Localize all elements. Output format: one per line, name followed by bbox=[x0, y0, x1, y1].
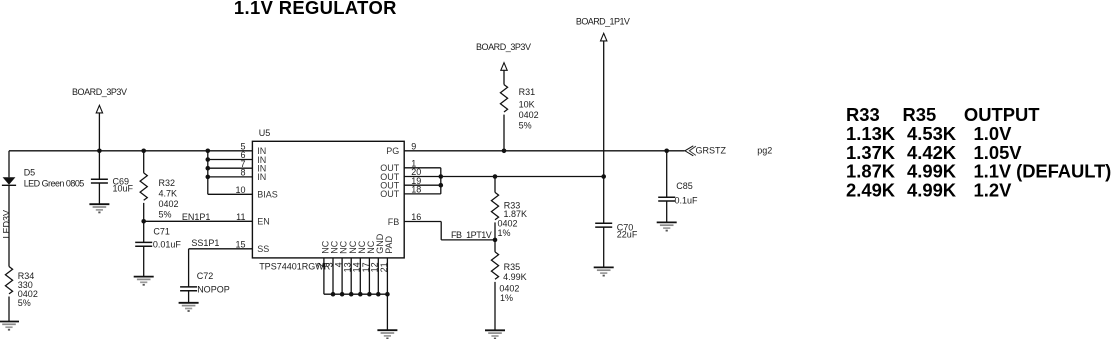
ground (U5 PAD) bbox=[377, 330, 397, 338]
svg-text:0402: 0402 bbox=[499, 283, 519, 293]
wire pin8 stub bbox=[208, 176, 253, 178]
svg-text:4.53K: 4.53K bbox=[907, 123, 957, 144]
svg-text:NOPOP: NOPOP bbox=[197, 284, 230, 294]
wire rail to R32 bbox=[143, 151, 145, 173]
wire R32 to EN junction bbox=[143, 203, 145, 221]
resistor R32 4.7K bbox=[140, 173, 178, 220]
wire bottom pin 13 stub bbox=[350, 258, 352, 294]
junction OUT bus a bbox=[439, 174, 444, 179]
junction EN/C71 bbox=[141, 219, 146, 224]
svg-text:9: 9 bbox=[411, 142, 416, 152]
wire 1P1V to C70 bbox=[603, 177, 605, 223]
junction pin6 tie bbox=[206, 157, 211, 162]
wire OUT tie bus bbox=[440, 168, 442, 194]
svg-text:4.99K: 4.99K bbox=[907, 180, 957, 201]
junction rail/R32 bbox=[141, 149, 146, 154]
wire R34 to ground bbox=[8, 297, 10, 322]
wire FB junction to R35 bbox=[494, 240, 496, 252]
svg-text:1.87K: 1.87K bbox=[846, 161, 896, 182]
svg-text:C72: C72 bbox=[197, 271, 214, 281]
wire SS to C72 bbox=[188, 249, 190, 287]
op-amp U5 TPS74401RGWR body bbox=[252, 128, 404, 271]
svg-text:4.7K: 4.7K bbox=[159, 188, 178, 198]
junction OUT bus b bbox=[439, 183, 444, 188]
junction FB divider bbox=[493, 238, 498, 243]
ground (R35) bbox=[485, 330, 505, 338]
wire PG net to GRSTZ bbox=[404, 150, 684, 152]
wire R35 to ground bbox=[494, 282, 496, 330]
svg-text:BIAS: BIAS bbox=[257, 190, 278, 200]
junction pin7 tie bbox=[206, 166, 211, 171]
svg-text:R33: R33 bbox=[846, 104, 880, 125]
svg-text:D5: D5 bbox=[24, 168, 36, 178]
svg-text:1%: 1% bbox=[498, 228, 511, 238]
U5 left pin names IN/BIAS/EN/SS bbox=[257, 146, 278, 254]
junction OUT/1P1V bbox=[601, 174, 606, 179]
svg-text:R32: R32 bbox=[159, 178, 176, 188]
capacitor C85 0.1uF bbox=[658, 197, 675, 201]
resistor R34 330 bbox=[5, 267, 37, 309]
resistor R31 10K bbox=[500, 85, 538, 131]
ground (C85) bbox=[657, 222, 677, 230]
svg-text:5%: 5% bbox=[18, 298, 31, 308]
wire FB to divider bbox=[441, 239, 495, 241]
junction bottom bus pin 21 bbox=[385, 292, 390, 297]
wire bottom pin 17 stub bbox=[368, 258, 370, 294]
junction pin8 tie bbox=[206, 175, 211, 180]
junction R31/PG bbox=[502, 149, 507, 154]
junction bottom bus pin 17 bbox=[367, 292, 372, 297]
svg-text:SS1P1: SS1P1 bbox=[191, 238, 219, 248]
svg-text:BOARD_3P3V: BOARD_3P3V bbox=[72, 87, 127, 97]
svg-text:10K: 10K bbox=[519, 99, 535, 109]
svg-text:0402: 0402 bbox=[519, 110, 539, 120]
junction rail/IN tie bbox=[206, 149, 211, 154]
wire rail to C69 bbox=[98, 151, 100, 179]
wire C72 to ground bbox=[188, 291, 190, 303]
wire IN/BIAS tie bus bbox=[207, 151, 209, 195]
wire pin10 BIAS stub bbox=[208, 193, 253, 195]
wire R33 to FB junction bbox=[494, 222, 496, 240]
svg-text:OUT: OUT bbox=[380, 189, 400, 199]
resistor R33 1.87K bbox=[491, 192, 527, 238]
U5 left pin numbers 5 6 7 8 10 11 15 bbox=[235, 142, 245, 250]
wire to C71 bbox=[143, 221, 145, 242]
svg-text:U5: U5 bbox=[259, 128, 271, 138]
power symbol BOARD_3P3V (R31) bbox=[476, 42, 531, 70]
wire R31 to PG bbox=[503, 115, 505, 151]
wire bottom pin 3 stub bbox=[332, 258, 334, 294]
svg-text:1.13K: 1.13K bbox=[846, 123, 896, 144]
svg-text:GRSTZ: GRSTZ bbox=[696, 146, 727, 156]
svg-text:OUTPUT: OUTPUT bbox=[964, 104, 1040, 125]
svg-text:1.87K: 1.87K bbox=[504, 209, 528, 219]
svg-text:EN1P1: EN1P1 bbox=[182, 212, 211, 222]
capacitor C70 22uF bbox=[595, 223, 612, 227]
svg-text:EN: EN bbox=[257, 217, 270, 227]
wire power stem bbox=[98, 113, 100, 151]
resistor R35 4.99K bbox=[491, 252, 526, 303]
junction bottom bus pin 3 bbox=[331, 292, 336, 297]
svg-text:R35: R35 bbox=[903, 104, 937, 125]
svg-text:SS: SS bbox=[257, 244, 269, 254]
svg-text:pg2: pg2 bbox=[757, 146, 772, 156]
junction bottom bus pin 13 bbox=[349, 292, 354, 297]
wire bottom pin 21 stub bbox=[386, 258, 388, 294]
power symbol BOARD_3P3V (left) bbox=[72, 87, 127, 113]
wire D5 cathode to R34 bbox=[8, 185, 10, 266]
svg-text:16: 16 bbox=[411, 212, 421, 222]
wire OUT to R33 bbox=[494, 177, 496, 193]
svg-text:11: 11 bbox=[236, 212, 245, 222]
capacitor C71 0.01uF bbox=[135, 242, 152, 246]
svg-text:1.1V REGULATOR: 1.1V REGULATOR bbox=[234, 0, 397, 18]
ground (C69) bbox=[89, 204, 109, 212]
U5 right pin numbers 9 1 20 19 18 16 bbox=[411, 142, 421, 223]
wire pin6 stub bbox=[208, 159, 253, 161]
junction bottom bus pin 4 bbox=[340, 292, 345, 297]
wire FB stub bbox=[404, 221, 441, 223]
wire pin7 stub bbox=[208, 167, 253, 169]
wire bottom pins bus bbox=[324, 293, 388, 295]
svg-text:1.2V: 1.2V bbox=[974, 180, 1013, 201]
svg-text:22uF: 22uF bbox=[617, 230, 638, 240]
ground (C71) bbox=[134, 277, 154, 285]
U5 bottom pin numbers 2 3 4 13 14 17 12 21 bbox=[315, 262, 389, 272]
wire bottom pin 4 stub bbox=[341, 258, 343, 294]
svg-text:5%: 5% bbox=[519, 120, 532, 130]
svg-text:0.1uF: 0.1uF bbox=[675, 196, 699, 206]
wire SS net SS1P1 bbox=[189, 248, 253, 250]
junction bottom bus pin 14 bbox=[358, 292, 363, 297]
wire rail to D5 anode bbox=[8, 151, 10, 178]
wire C69 to ground bbox=[98, 183, 100, 204]
wire pin19 OUT stub bbox=[404, 184, 441, 186]
ground (C70) bbox=[594, 267, 614, 275]
junction power/rail bbox=[97, 149, 102, 154]
ground (C72) bbox=[179, 303, 199, 311]
svg-text:10uF: 10uF bbox=[113, 184, 134, 194]
svg-text:BOARD_3P3V: BOARD_3P3V bbox=[476, 42, 531, 52]
svg-text:1%: 1% bbox=[500, 293, 513, 303]
off-page connector GRSTZ pg2 bbox=[685, 146, 772, 156]
svg-text:PG: PG bbox=[386, 146, 399, 156]
svg-text:R35: R35 bbox=[504, 262, 521, 272]
svg-text:0.01uF: 0.01uF bbox=[153, 240, 182, 250]
svg-text:5%: 5% bbox=[159, 210, 172, 220]
wire 3.3V input rail bbox=[9, 150, 252, 152]
wire FB vertical bbox=[440, 222, 442, 240]
wire pin1 OUT stub bbox=[404, 167, 441, 169]
svg-text:4.99K: 4.99K bbox=[907, 161, 957, 182]
wire C70 to ground bbox=[603, 227, 605, 267]
svg-text:IN: IN bbox=[257, 172, 266, 182]
junction bottom bus pin 12 bbox=[376, 292, 381, 297]
svg-text:4.99K: 4.99K bbox=[503, 272, 527, 282]
table R33/R35/OUTPUT options bbox=[846, 104, 1111, 201]
svg-text:C85: C85 bbox=[676, 181, 693, 191]
wire bottom pin 12 stub bbox=[377, 258, 379, 294]
wire power to R31 bbox=[503, 70, 505, 84]
svg-text:1.0V: 1.0V bbox=[974, 123, 1013, 144]
svg-text:18: 18 bbox=[411, 185, 421, 195]
svg-text:FB_1PT1V: FB_1PT1V bbox=[451, 230, 492, 240]
svg-text:BOARD_1P1V: BOARD_1P1V bbox=[576, 17, 630, 27]
svg-text:8: 8 bbox=[240, 168, 245, 178]
svg-text:2.49K: 2.49K bbox=[846, 180, 896, 201]
capacitor C69 10uF bbox=[91, 179, 108, 183]
wire PG to C85 bbox=[666, 151, 668, 197]
svg-text:LED3V: LED3V bbox=[1, 210, 11, 239]
power symbol BOARD_1P1V bbox=[576, 17, 630, 41]
svg-text:1.1V (DEFAULT): 1.1V (DEFAULT) bbox=[974, 161, 1112, 182]
wire C85 to ground bbox=[666, 201, 668, 222]
wire OUT net to C70/1P1V bbox=[441, 176, 604, 178]
svg-text:0402: 0402 bbox=[159, 199, 179, 209]
wire bottom pin 2 stub bbox=[323, 258, 325, 294]
svg-text:15: 15 bbox=[235, 240, 245, 250]
U5 right pin names PG/OUT/FB bbox=[380, 146, 400, 227]
wire pin20 OUT stub bbox=[404, 176, 441, 178]
ground (R34) bbox=[0, 322, 19, 330]
svg-text:C71: C71 bbox=[153, 226, 170, 236]
wire bus to ground bbox=[386, 294, 388, 330]
diode D5 LED Green 0805 bbox=[2, 168, 84, 189]
wire C71 to ground bbox=[143, 246, 145, 276]
junction PG/C85 bbox=[664, 149, 669, 154]
svg-text:0402: 0402 bbox=[498, 219, 518, 229]
svg-text:10: 10 bbox=[235, 185, 245, 195]
wire EN net EN1P1 bbox=[144, 220, 253, 222]
svg-text:FB: FB bbox=[388, 217, 400, 227]
wire 1P1V vertical bbox=[603, 41, 605, 177]
svg-text:R31: R31 bbox=[519, 87, 536, 97]
svg-text:PAD: PAD bbox=[384, 235, 394, 253]
svg-text:LED Green 0805: LED Green 0805 bbox=[24, 178, 85, 188]
wire bottom pin 14 stub bbox=[359, 258, 361, 294]
junction OUT/R33 bbox=[493, 174, 498, 179]
U5 bottom pin names NC NC NC NC NC NC GND PAD bbox=[321, 233, 395, 254]
capacitor C72 NOPOP bbox=[180, 287, 197, 291]
wire pin18 OUT stub bbox=[404, 193, 441, 195]
